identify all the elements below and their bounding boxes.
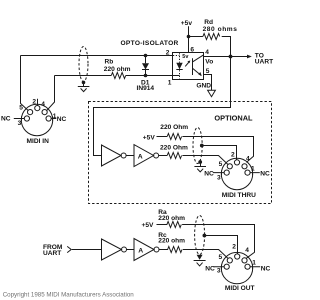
svg-text:Copyright 1985 MIDI Manufactur: Copyright 1985 MIDI Manufacturers Associ… <box>3 291 135 298</box>
svg-text:+5v: +5v <box>181 20 193 27</box>
svg-text:NC: NC <box>260 171 270 178</box>
cable shield ellipse MIDI IN <box>79 47 88 82</box>
svg-text:1: 1 <box>168 79 172 86</box>
buffer gate A (OUT chain) <box>134 239 154 261</box>
wire shield to THRU pin 2 <box>202 146 237 160</box>
svg-text:280 ohms: 280 ohms <box>203 26 238 33</box>
LED inside opto <box>173 53 183 79</box>
svg-text:2: 2 <box>231 151 235 158</box>
svg-text:NC: NC <box>57 116 67 123</box>
wire <box>126 155 134 157</box>
diode D1 IN914 <box>137 56 155 93</box>
resistor Rb <box>111 73 125 79</box>
svg-text:220 Ohm: 220 Ohm <box>160 145 188 152</box>
svg-text:4: 4 <box>41 101 45 108</box>
wire pin 1 to NC <box>51 116 56 121</box>
MIDI IN connector J1 <box>18 98 57 145</box>
svg-text:220 ohm: 220 ohm <box>104 66 131 73</box>
svg-text:GND: GND <box>196 82 211 89</box>
wire NC to pin 3 <box>14 116 24 121</box>
svg-text:5v: 5v <box>182 54 189 60</box>
node +5v junction <box>187 35 191 39</box>
wire to THRU pin 5 <box>182 156 227 165</box>
wire top rail from MIDI IN pin 5 to opto pin 2 <box>21 55 173 57</box>
svg-text:UART: UART <box>43 250 61 257</box>
ground (THRU cable shield) <box>194 162 206 172</box>
wire NC to THRU pin 3 <box>213 170 224 175</box>
wire FROM UART to inverter <box>72 249 102 251</box>
resistor 220 Ohm (THRU +5V) <box>167 134 181 140</box>
svg-text:NC: NC <box>205 265 215 272</box>
svg-text:NC: NC <box>261 265 271 272</box>
op-amp U1 opto-isolator box <box>173 53 204 80</box>
wire +5V to resistor <box>157 136 168 138</box>
buffer gate A (THRU chain) <box>134 145 154 167</box>
svg-text:UART: UART <box>255 59 273 66</box>
wire OUT pin 1 to NC <box>250 265 260 270</box>
ground (MIDI IN cable shield) <box>78 82 90 91</box>
svg-text:3: 3 <box>18 120 22 127</box>
svg-text:5: 5 <box>219 161 223 168</box>
node shield drain <box>82 81 86 85</box>
svg-text:MIDI IN: MIDI IN <box>27 138 50 145</box>
wire feedback from UART node into optional buffers <box>94 57 231 156</box>
svg-text:OPTO-ISOLATOR: OPTO-ISOLATOR <box>121 40 179 47</box>
wire opto pin 4 output to UART <box>204 56 249 58</box>
node shield tap <box>203 234 207 238</box>
wire lower rail from MIDI IN pin 4 to opto pin 1 <box>55 75 180 77</box>
ground (opto GND) <box>208 90 216 96</box>
resistor Rc <box>159 247 182 253</box>
wire +5v to opto pin 6 <box>188 26 190 52</box>
svg-text:4: 4 <box>245 247 249 254</box>
svg-text:220 ohm: 220 ohm <box>158 238 185 245</box>
svg-text:OPTIONAL: OPTIONAL <box>214 113 253 122</box>
wire <box>127 249 135 251</box>
svg-text:A: A <box>138 153 143 160</box>
wire vertical down to MIDI IN pin 4 <box>47 76 55 111</box>
node TO UART junction <box>229 55 233 59</box>
ground (OUT cable shield) <box>194 255 206 266</box>
svg-text:+5V: +5V <box>143 134 156 141</box>
wire NC to OUT pin 3 <box>214 265 225 270</box>
MIDI OUT connector J3 <box>217 244 256 293</box>
wire left vertical down to MIDI IN pin 5 <box>21 56 28 111</box>
svg-text:Vo: Vo <box>205 59 213 66</box>
svg-text:MIDI OUT: MIDI OUT <box>225 285 255 292</box>
resistor 220 Ohm (THRU signal) <box>167 153 181 159</box>
MIDI THRU connector J2 <box>217 151 256 199</box>
svg-text:2: 2 <box>32 98 36 105</box>
svg-text:MIDI THRU: MIDI THRU <box>222 192 256 199</box>
svg-text:IN914: IN914 <box>137 85 155 92</box>
inverter gate (THRU chain) <box>102 145 122 166</box>
wire buffer out to resistor <box>159 155 168 157</box>
svg-text:220 Ohm: 220 Ohm <box>160 124 188 131</box>
svg-text:4: 4 <box>205 49 209 56</box>
cable shield ellipse MIDI OUT <box>195 216 205 255</box>
inverter gate (OUT chain) <box>102 239 122 260</box>
svg-text:NC: NC <box>1 116 11 123</box>
svg-text:2: 2 <box>232 244 236 251</box>
svg-text:+5V: +5V <box>142 222 155 229</box>
svg-text:Rb: Rb <box>105 59 114 66</box>
resistor Ra <box>157 222 182 228</box>
node D1 cathode junction <box>144 74 148 78</box>
svg-text:2: 2 <box>166 50 170 57</box>
svg-text:3: 3 <box>217 268 221 275</box>
wire input chevron <box>67 246 71 252</box>
wire shield to OUT pin 2 <box>204 236 237 254</box>
cable shield ellipse MIDI THRU <box>193 128 202 164</box>
light arrow inside opto <box>185 62 189 66</box>
optional section dashed box <box>89 102 272 204</box>
resistor Rd <box>189 19 238 56</box>
wire to THRU pin 4 <box>182 137 253 163</box>
svg-text:3: 3 <box>217 175 221 182</box>
transistor inside opto <box>193 55 204 76</box>
wire THRU pin 1 to NC <box>250 170 260 175</box>
svg-text:A: A <box>138 247 143 254</box>
node shield tap <box>200 144 204 148</box>
svg-text:4: 4 <box>246 155 250 162</box>
wire Rc to OUT pin 5 <box>183 250 228 259</box>
node shield bottom <box>198 160 202 164</box>
wire opto pin 5 to ground <box>204 75 212 91</box>
node D1 anode junction <box>144 54 148 58</box>
svg-text:6: 6 <box>190 46 194 53</box>
svg-text:220 ohm: 220 ohm <box>158 215 185 222</box>
wire Ra to OUT pin 4 <box>182 225 254 259</box>
svg-text:NC: NC <box>204 171 214 178</box>
svg-text:5: 5 <box>219 254 223 261</box>
svg-text:5: 5 <box>19 105 23 112</box>
svg-text:Rd: Rd <box>204 19 213 26</box>
